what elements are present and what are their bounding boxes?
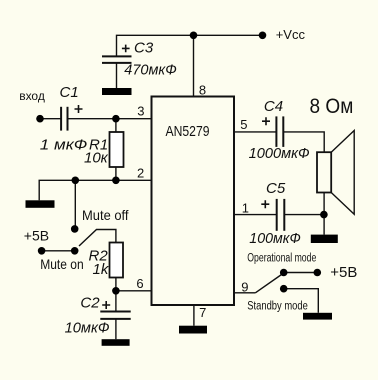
svg-text:100мкФ: 100мкФ: [249, 230, 301, 247]
svg-text:+5В: +5В: [330, 264, 357, 281]
svg-text:Operational mode: Operational mode: [247, 252, 316, 264]
svg-text:2: 2: [137, 165, 144, 180]
svg-text:9: 9: [241, 280, 248, 295]
svg-text:Mute off: Mute off: [82, 207, 129, 223]
svg-text:+Vcc: +Vcc: [276, 27, 306, 42]
svg-text:Mute on: Mute on: [40, 256, 83, 272]
svg-text:10к: 10к: [84, 150, 109, 167]
svg-text:8: 8: [199, 82, 206, 97]
svg-text:C4: C4: [264, 98, 283, 115]
svg-text:1k: 1k: [93, 261, 110, 278]
svg-text:5: 5: [240, 117, 247, 132]
svg-text:1: 1: [242, 201, 249, 216]
svg-text:10мкФ: 10мкФ: [65, 320, 110, 337]
svg-text:1 мкФ: 1 мкФ: [40, 137, 88, 154]
svg-text:7: 7: [199, 305, 206, 320]
svg-text:C2: C2: [80, 295, 100, 312]
svg-text:Standby mode: Standby mode: [247, 301, 307, 313]
svg-text:C5: C5: [266, 180, 286, 197]
svg-text:C3: C3: [134, 40, 154, 57]
svg-text:+5В: +5В: [24, 228, 49, 244]
svg-text:6: 6: [136, 276, 143, 291]
svg-text:3: 3: [137, 103, 144, 118]
svg-text:C1: C1: [60, 84, 79, 101]
svg-text:1000мкФ: 1000мкФ: [249, 145, 310, 162]
svg-text:8 Ом: 8 Ом: [310, 95, 354, 118]
svg-text:AN5279: AN5279: [166, 123, 210, 140]
svg-text:вход: вход: [19, 89, 45, 103]
svg-text:470мкФ: 470мкФ: [124, 62, 177, 79]
